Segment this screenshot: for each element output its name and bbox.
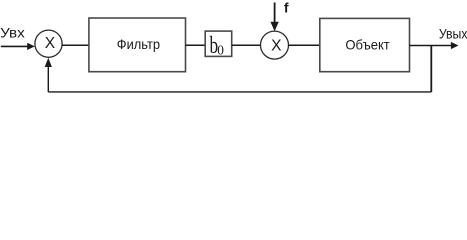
wire X2 to object (289, 44, 320, 46)
svg-text:f: f (284, 0, 289, 15)
multiplier X2 (disturbance junction circle) (261, 31, 289, 59)
wire feedback bottom run (48, 91, 431, 93)
multiplier X1 (summing junction circle) (35, 30, 62, 57)
block b0 label subscript (217, 42, 224, 57)
wire feedback rise with arrowhead into X1 (45, 58, 52, 92)
wire feedback drop from output (430, 46, 432, 92)
block b0 label (210, 31, 219, 59)
wire output with arrowhead (410, 42, 459, 49)
svg-text:Увых: Увых (439, 27, 467, 43)
svg-text:0: 0 (217, 42, 224, 57)
svg-text:Увх: Увх (0, 26, 25, 42)
svg-text:Фильтр: Фильтр (117, 36, 160, 52)
block Фильтр (89, 18, 186, 72)
block Объект (320, 18, 410, 71)
svg-text:Х: Х (45, 35, 55, 52)
wire filter to b0 (186, 44, 206, 46)
wire b0 to multiplier X2 (232, 44, 261, 46)
wire input with arrowhead into summing junction (1, 43, 35, 50)
block b0 (205, 31, 232, 56)
wire X1 to filter (62, 44, 89, 46)
svg-text:Объект: Объект (345, 36, 390, 52)
svg-text:Х: Х (271, 38, 281, 55)
wire f input with arrowhead into X2 (270, 3, 278, 32)
